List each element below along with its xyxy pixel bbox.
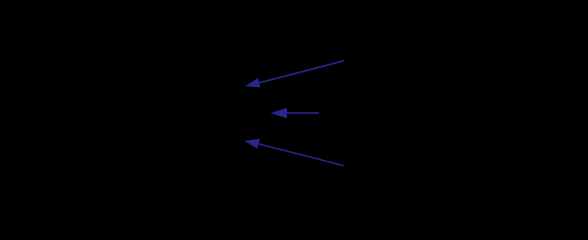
arrow 3 head xyxy=(244,139,260,149)
label: atomic number (black text, invisible) xyxy=(352,158,466,178)
label: element symbol (black text, invisible) xyxy=(326,103,447,123)
arrow 2 head xyxy=(270,108,287,119)
arrow 3: bottom label to subscript (line) xyxy=(259,144,344,166)
arrow 1 head xyxy=(245,78,260,87)
isotope notation (black text, invisible on black background) xyxy=(150,85,175,124)
label: mass number (black text, invisible) xyxy=(352,48,455,68)
arrow 1: top label to superscript (line) xyxy=(259,61,344,83)
arrow 2: middle label to symbol (line) xyxy=(287,112,319,114)
